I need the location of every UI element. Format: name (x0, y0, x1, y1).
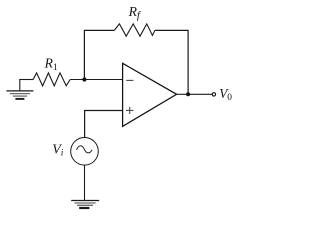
op-amp U1 (123, 63, 177, 126)
junction node B (output / feedback) (186, 92, 190, 96)
wire: source bottom to ground (84, 165, 86, 200)
wire: Rf down to output node B (155, 30, 188, 94)
wire: R1 to op-amp inverting input (node A) (70, 79, 122, 81)
op-amp inverting pin mark (minus) (126, 79, 133, 81)
wire: non-inverting input to source Vi (85, 111, 123, 138)
resistor R1 (33, 73, 70, 86)
wire: node B to output terminal (188, 93, 212, 95)
resistor Rf (114, 24, 155, 36)
svg-text:Rf: Rf (128, 4, 142, 21)
svg-text:R1: R1 (44, 56, 58, 73)
junction node A (feedback tap) (82, 77, 86, 81)
svg-text:V0: V0 (219, 86, 232, 103)
wire: feedback riser node A up and across to Rf (84, 30, 114, 79)
source Vi (sinusoidal voltage source) (71, 138, 99, 166)
wire: op-amp output to node B (177, 93, 189, 95)
ground (left, input side) (6, 80, 33, 99)
op-amp non-inverting pin mark (plus) (126, 107, 134, 114)
svg-text:Vi: Vi (52, 143, 64, 159)
output terminal (open circle) (212, 93, 215, 96)
wire: ground stub to resistor R1 (19, 79, 33, 81)
ground (below source Vi) (71, 201, 99, 209)
